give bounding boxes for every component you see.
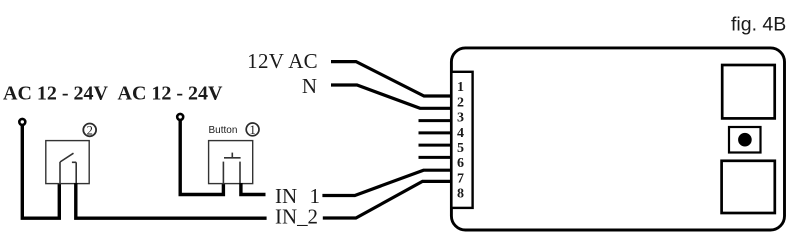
wire button S1 right pin to IN 1 [241,183,266,195]
device U1 outline [451,48,784,230]
svg-text:7: 7 [457,171,464,186]
stub pin 4 [419,131,453,134]
svg-text:5: 5 [457,141,464,156]
svg-text:1: 1 [249,123,255,137]
switch S2 symbol [60,153,76,183]
terminal block TB1 [451,72,472,208]
wire T2 to button S1 left pin [180,120,223,195]
relay output K1 square [722,65,775,118]
wire IN 1 to pin 7 [322,170,452,195]
svg-text:4: 4 [457,126,464,141]
terminal T1 (circle) [19,119,25,125]
svg-text:IN_2: IN_2 [275,205,318,229]
switch S2 box [46,141,89,184]
svg-text:8: 8 [457,187,464,202]
stub pin 6 [419,156,453,159]
designator circled 1 [246,123,259,137]
svg-text:3: 3 [457,111,464,126]
stub pin 3 [419,119,453,122]
svg-text:2: 2 [87,123,93,137]
button S1 symbol [223,153,240,184]
terminal T2 (circle) [177,114,183,120]
svg-text:12V AC: 12V AC [247,49,318,73]
wire IN_2 to pin 8 [323,181,452,218]
wire 12V AC to pin 1 [331,62,452,96]
svg-text:AC 12 - 24V: AC 12 - 24V [118,83,224,105]
wire switch S2 right pin to IN_2 [76,183,267,218]
svg-text:1: 1 [457,80,464,95]
LED dot [738,133,752,147]
wire N to pin 2 [331,85,452,108]
stub pin 5 [419,144,453,147]
relay output K2 square [722,161,775,213]
svg-text:2: 2 [457,95,464,110]
designator circled 2 [83,123,96,137]
svg-text:AC 12 - 24V: AC 12 - 24V [3,83,109,105]
svg-text:6: 6 [457,156,464,171]
LED indicator box [729,127,761,153]
svg-text:fig. 4B: fig. 4B [731,14,786,36]
svg-text:N: N [302,74,317,98]
svg-text:Button: Button [209,125,238,136]
wire T1 to switch S2 left pin [22,125,59,218]
button S1 box [209,141,253,184]
